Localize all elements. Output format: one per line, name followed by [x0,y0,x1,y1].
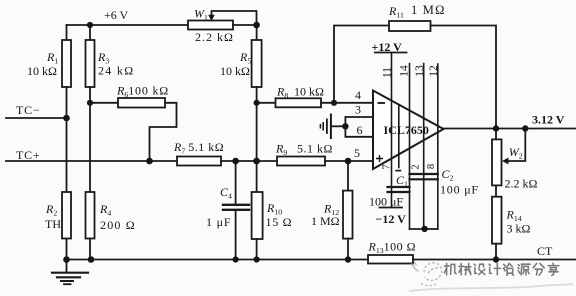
node C2 bottom [421,226,427,232]
resistor R12 [343,191,353,239]
svg-text:7: 7 [382,164,393,169]
svg-text:3: 3 [355,103,361,117]
wire pin5 [325,160,373,162]
wire pin 13 / C2 lead vertical [423,64,425,230]
capacitor C4 [223,205,249,210]
node R12/TC+ [345,158,352,165]
svg-text:14: 14 [398,65,410,77]
resistor R5 [252,40,262,87]
node C4/TC+ [232,158,239,165]
svg-text:100 μF: 100 μF [369,195,403,209]
svg-text:CT: CT [537,244,553,258]
node R5/R9 [254,100,260,106]
node pin4/R11 [331,100,337,106]
wire R1-R2 column [66,87,68,192]
svg-text:−12 V: −12 V [376,212,407,226]
svg-text:ICL7650: ICL7650 [384,123,429,137]
svg-text:24 kΩ: 24 kΩ [98,64,134,78]
svg-text:C2: C2 [442,167,454,183]
wire W1 wiper [212,11,257,25]
resistor R13 [368,255,413,264]
svg-text:R75.1 kΩ: R75.1 kΩ [173,140,224,156]
wire C4 bottom lead [235,211,237,260]
W2 wiper arrowhead [502,158,509,165]
+12V supply bar [375,52,407,54]
wire R6 left lead [90,102,118,104]
svg-text:+6 V: +6 V [104,8,129,22]
wire C4 top lead [235,161,237,204]
svg-text:10 kΩ: 10 kΩ [294,85,324,99]
svg-text:5.1 kΩ: 5.1 kΩ [297,142,333,156]
wire R3 top lead [89,25,91,40]
capacitor C1 [388,187,410,192]
node R6/TC+ [146,158,153,165]
wire bottom rail left [67,259,369,261]
resistor R9h [276,98,322,107]
node gnd/R2 [63,256,70,263]
resistor R1 [62,40,71,87]
node gnd36 [342,123,348,129]
label pin1 rotated [395,170,401,172]
svg-text:W1: W1 [194,7,208,23]
capacitor C2 [410,174,438,179]
wire pin 12/8 vertical [437,64,439,229]
svg-text:8: 8 [426,164,437,169]
svg-text:R2: R2 [45,202,57,218]
node out/wiper2 [522,125,528,131]
wire R12 top lead [347,161,349,191]
wire TC- [6,117,67,119]
potentiometer W1 body [188,21,233,30]
svg-text:11: 11 [382,67,394,78]
svg-text:12: 12 [428,65,440,77]
wire R11 right [431,26,497,129]
wire W1 right to R5 node [233,24,257,26]
svg-text:R13100 Ω: R13100 Ω [368,240,417,256]
watermark logo [412,262,442,286]
wire W2 wiper [508,129,525,162]
wire pin 11/7 vertical (V+ to V-) [391,53,393,208]
op-amp U1 ICL7650 triangle [373,91,444,170]
svg-text:15 Ω: 15 Ω [266,215,293,229]
svg-text:2.2 kΩ: 2.2 kΩ [505,177,538,191]
wire TC+ [6,160,177,162]
svg-text:TC−: TC− [16,103,41,117]
resistor R10 [252,192,263,239]
resistor R2 [62,192,71,239]
node gnd/R4 [88,256,95,263]
wire R2 bottom lead [66,239,68,260]
wire pin4 [321,102,373,104]
node out/R11 [493,125,499,131]
wire output 3.12V [444,128,576,130]
svg-text:5: 5 [354,146,360,160]
node R6/R3 [87,100,93,106]
svg-text:100 μF: 100 μF [440,183,479,197]
op-amp minus sign [378,102,386,104]
wire W2 top lead [495,129,497,140]
resistor R6 [118,98,165,108]
node rail/R10 [254,256,260,262]
resistor R11 [389,21,431,31]
svg-text:R11: R11 [388,4,404,20]
resistor R4 [86,192,95,239]
wire bottom rail right [413,259,576,261]
svg-text:W2: W2 [509,145,523,161]
node R5R10/TC+ [253,158,260,165]
wire R4 bottom lead [89,239,91,260]
wire R10 bottom lead [256,239,258,260]
wire pin3 pin6 loop [345,117,373,137]
svg-text:3.12 V: 3.12 V [532,113,565,127]
wire R3-R4 column [89,87,91,192]
wire R5 top lead [256,25,258,40]
wire R9 left lead [257,102,276,104]
-12V terminal bar [380,207,403,209]
ground bars [52,272,88,274]
svg-text:3 kΩ: 3 kΩ [507,222,531,236]
svg-text:TC+: TC+ [16,148,41,162]
node +6V/R3 [87,22,93,28]
ground stem [66,260,68,273]
node rail/C4 [233,256,239,262]
W1 wiper arrowhead [208,15,215,21]
svg-text:6: 6 [357,123,363,137]
wire R7 to R8 [221,160,277,162]
wire pin 1 vertical [398,105,400,168]
svg-text:200 Ω: 200 Ω [100,218,136,232]
svg-text:1 μF: 1 μF [206,215,231,229]
svg-text:2.2 kΩ: 2.2 kΩ [195,30,234,44]
node rail/R14 [493,256,499,262]
node rail/R12 [345,256,351,262]
wire R6 right jog [150,103,177,161]
svg-text:2: 2 [411,164,422,169]
svg-text:R6100 kΩ: R6100 kΩ [116,84,169,100]
svg-text:4: 4 [355,88,361,102]
watermark underline squiggle [409,284,573,291]
svg-text:10 kΩ: 10 kΩ [27,64,57,78]
node W1/R5 [253,22,260,29]
resistor R8h [277,157,325,166]
svg-text:C4: C4 [220,185,232,201]
wire signal ground stub [332,125,346,127]
svg-text:R8: R8 [276,85,288,101]
wire W2 to R14 [495,185,497,196]
svg-text:R9: R9 [275,142,287,158]
signal ground bars [330,115,332,139]
wire R14 bottom lead [495,244,497,260]
resistor R14 [492,197,502,244]
potentiometer W2 body [492,139,502,185]
resistor R7 [177,157,221,166]
watermark text 机械设计资源分享 [444,263,559,275]
wire R12 bottom lead [347,239,349,260]
wire +6V rail [67,24,189,26]
svg-text:C1: C1 [396,173,408,189]
wire R5 bottom column through nodes [256,87,258,192]
svg-text:+12 V: +12 V [372,40,403,54]
svg-text:TH: TH [45,217,61,231]
svg-text:13: 13 [414,65,426,77]
resistor R3 [86,40,95,87]
svg-text:R4: R4 [99,202,111,218]
svg-text:1 MΩ: 1 MΩ [411,3,446,17]
op-amp plus sign [376,155,383,162]
wire R11 left drop [334,26,389,103]
svg-text:1 MΩ: 1 MΩ [311,214,340,228]
svg-text:10 kΩ: 10 kΩ [220,64,250,78]
wire pin2-pin8 bottom [410,228,438,230]
wire R1 top lead [66,25,68,40]
wire pin 14/2 vertical [409,64,411,230]
node TC-/R1 [63,115,70,122]
